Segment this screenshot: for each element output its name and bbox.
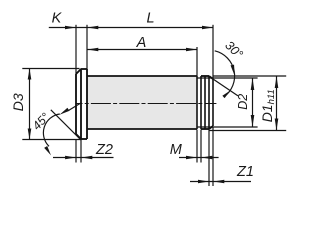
svg-text:L: L <box>146 11 154 27</box>
svg-text:M: M <box>170 142 183 158</box>
svg-text:Z1: Z1 <box>236 164 254 180</box>
svg-text:K: K <box>52 11 63 27</box>
svg-text:A: A <box>136 35 147 51</box>
svg-text:D2: D2 <box>236 94 250 110</box>
svg-text:Z2: Z2 <box>95 142 113 158</box>
svg-text:D3: D3 <box>10 93 26 111</box>
